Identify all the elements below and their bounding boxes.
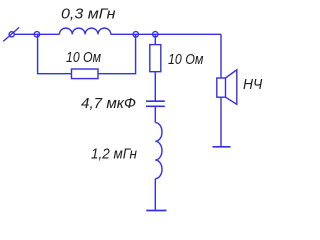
wire top rail left segment xyxy=(14,33,59,35)
node A xyxy=(34,32,39,37)
ground (speaker branch) xyxy=(213,146,231,148)
wire capacitor to inductor L2 xyxy=(154,106,156,122)
node C xyxy=(153,32,158,37)
wire right drop to speaker xyxy=(220,34,222,147)
ground (middle branch) xyxy=(146,210,166,212)
resistor R1 10 Ом (horizontal) xyxy=(72,69,99,79)
node B xyxy=(133,32,138,37)
input terminal xyxy=(3,27,19,41)
svg-text:10 Ом: 10 Ом xyxy=(168,52,203,68)
wire from node B to resistor R2 xyxy=(154,34,156,44)
svg-text:10 Ом: 10 Ом xyxy=(66,50,101,66)
capacitor C1 4,7 мкФ xyxy=(146,101,165,106)
wire inductor to ground xyxy=(154,179,156,211)
svg-text:1,2 мГн: 1,2 мГн xyxy=(91,146,137,162)
inductor L1 0,3 мГн xyxy=(59,28,110,34)
inductor L2 1,2 мГн (vertical) xyxy=(155,123,162,179)
wire top rail right segment xyxy=(111,33,221,35)
wire R2 to capacitor xyxy=(154,72,156,101)
speaker BA1 xyxy=(217,70,237,105)
svg-text:4,7 мкФ: 4,7 мкФ xyxy=(81,96,136,112)
wire left branch down-across-up xyxy=(38,34,136,73)
svg-text:НЧ: НЧ xyxy=(243,77,263,93)
resistor R2 10 Ом (vertical) xyxy=(150,45,161,72)
svg-text:0,3 мГн: 0,3 мГн xyxy=(61,7,116,23)
